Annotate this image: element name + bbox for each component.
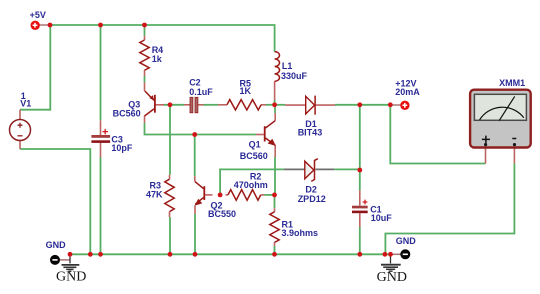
svg-text:1K: 1K	[240, 86, 252, 96]
svg-text:XMM1: XMM1	[499, 78, 525, 88]
svg-text:GND: GND	[46, 240, 67, 250]
svg-text:GND: GND	[56, 270, 86, 285]
svg-text:10pF: 10pF	[111, 143, 133, 153]
svg-text:0.1uF: 0.1uF	[189, 87, 213, 97]
svg-text:GND: GND	[396, 236, 417, 246]
svg-text:10uF: 10uF	[371, 213, 393, 223]
svg-text:20mA: 20mA	[395, 87, 420, 97]
svg-text:D2: D2	[305, 184, 317, 194]
svg-text:GND: GND	[377, 270, 407, 285]
svg-text:BC560: BC560	[113, 109, 141, 119]
svg-text:330uF: 330uF	[281, 71, 308, 81]
svg-text:Q1: Q1	[249, 140, 261, 150]
svg-text:47K: 47K	[146, 190, 163, 200]
svg-text:BC560: BC560	[240, 151, 268, 161]
svg-text:L1: L1	[282, 61, 293, 71]
svg-text:BIT43: BIT43	[298, 128, 323, 138]
svg-text:3.9ohms: 3.9ohms	[282, 228, 319, 238]
svg-text:+5V: +5V	[30, 10, 46, 20]
svg-text:BC550: BC550	[208, 209, 236, 219]
svg-text:470ohm: 470ohm	[234, 180, 268, 190]
svg-text:1k: 1k	[152, 54, 163, 64]
svg-text:ZPD12: ZPD12	[298, 194, 326, 204]
svg-text:V1: V1	[20, 99, 31, 109]
